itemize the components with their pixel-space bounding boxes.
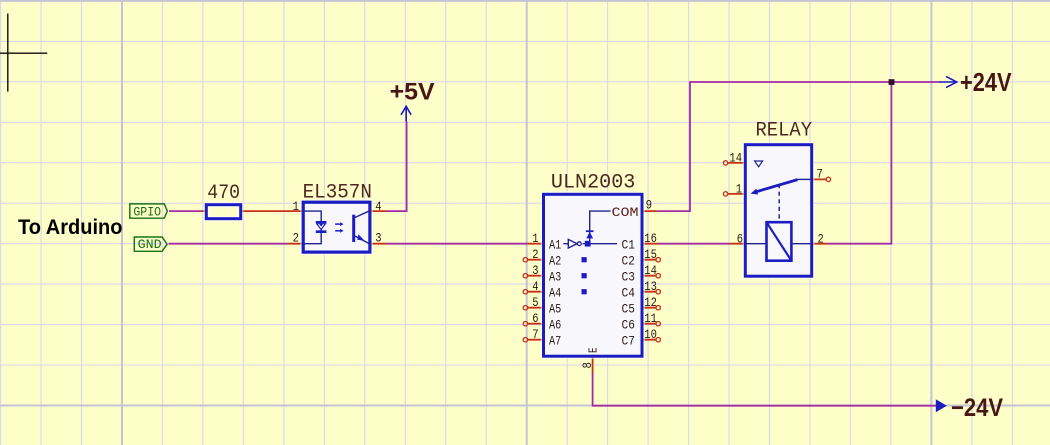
svg-text:1: 1 bbox=[293, 199, 299, 214]
svg-text:4: 4 bbox=[375, 199, 381, 214]
svg-text:15: 15 bbox=[644, 247, 657, 262]
svg-text:9: 9 bbox=[646, 197, 652, 212]
svg-text:A4: A4 bbox=[549, 285, 561, 300]
svg-text:C7: C7 bbox=[622, 333, 635, 348]
svg-text:A1: A1 bbox=[549, 237, 561, 252]
svg-text:6: 6 bbox=[737, 231, 743, 246]
svg-text:A6: A6 bbox=[549, 317, 561, 332]
svg-text:3: 3 bbox=[375, 231, 381, 246]
svg-text:2: 2 bbox=[818, 231, 824, 246]
svg-text:−24V: −24V bbox=[951, 394, 1003, 422]
svg-text:COM: COM bbox=[612, 205, 639, 220]
svg-text:C3: C3 bbox=[622, 269, 635, 284]
svg-text:+5V: +5V bbox=[390, 79, 435, 106]
svg-text:3: 3 bbox=[532, 263, 538, 278]
svg-text:C2: C2 bbox=[622, 253, 635, 268]
svg-text:A3: A3 bbox=[549, 269, 561, 284]
svg-text:14: 14 bbox=[729, 151, 742, 166]
svg-text:2: 2 bbox=[532, 247, 538, 262]
svg-text:16: 16 bbox=[644, 231, 657, 246]
svg-text:A2: A2 bbox=[549, 253, 561, 268]
svg-text:C5: C5 bbox=[622, 301, 635, 316]
svg-text:1: 1 bbox=[532, 231, 538, 246]
svg-text:A5: A5 bbox=[549, 301, 561, 316]
svg-text:470: 470 bbox=[207, 182, 240, 205]
svg-text:13: 13 bbox=[644, 279, 657, 294]
svg-text:7: 7 bbox=[817, 166, 823, 181]
svg-text:EL357N: EL357N bbox=[303, 181, 372, 204]
svg-text:2: 2 bbox=[293, 231, 299, 246]
svg-text:C6: C6 bbox=[622, 317, 635, 332]
svg-text:GND: GND bbox=[138, 238, 162, 252]
svg-text:5: 5 bbox=[532, 295, 538, 310]
svg-text:10: 10 bbox=[644, 327, 657, 342]
svg-text:GPIO: GPIO bbox=[133, 205, 161, 219]
svg-text:RELAY: RELAY bbox=[756, 119, 813, 142]
svg-text:4: 4 bbox=[532, 279, 538, 294]
svg-text:+24V: +24V bbox=[960, 67, 1012, 97]
svg-text:6: 6 bbox=[532, 311, 538, 326]
svg-text:C4: C4 bbox=[622, 285, 636, 300]
svg-text:11: 11 bbox=[644, 311, 657, 326]
svg-text:ULN2003: ULN2003 bbox=[551, 172, 636, 195]
svg-text:To Arduino: To Arduino bbox=[18, 216, 123, 239]
svg-text:12: 12 bbox=[644, 295, 657, 310]
svg-text:7: 7 bbox=[532, 327, 538, 342]
svg-text:1: 1 bbox=[736, 181, 742, 196]
svg-text:C1: C1 bbox=[622, 237, 636, 252]
svg-text:E: E bbox=[586, 348, 600, 354]
svg-text:14: 14 bbox=[644, 263, 657, 278]
svg-text:8: 8 bbox=[580, 362, 595, 368]
svg-text:A7: A7 bbox=[549, 333, 561, 348]
